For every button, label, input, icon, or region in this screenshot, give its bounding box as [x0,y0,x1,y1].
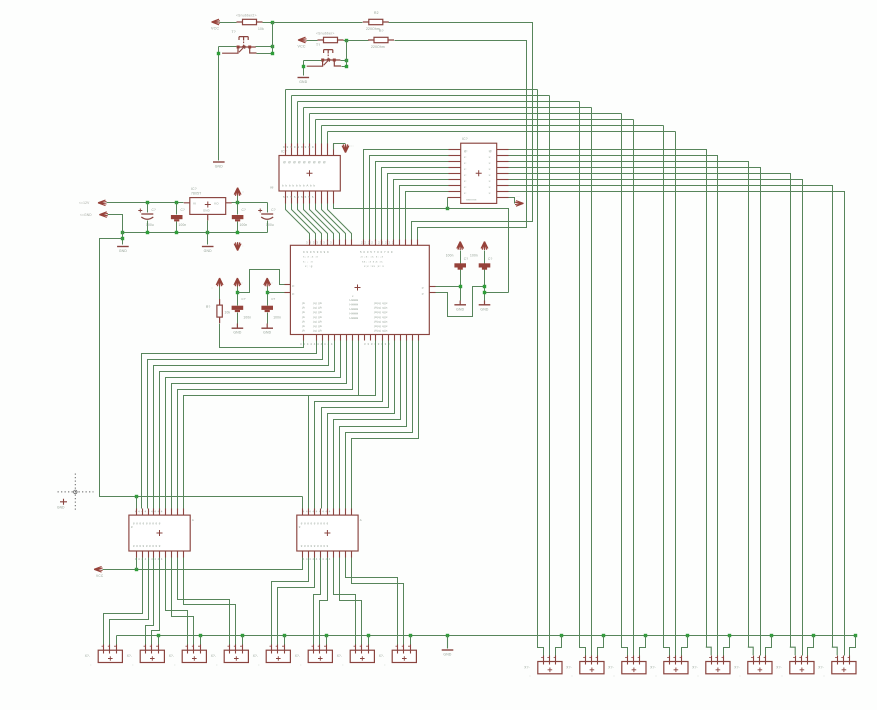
pin [309,144,311,156]
capacitor C9 [261,306,273,310]
pin [183,551,185,558]
pin [315,240,317,246]
connector X2 mark [150,656,155,661]
svg-text:GND: GND [263,331,271,335]
resistor R5 [219,299,221,323]
wire [291,96,293,144]
pin [153,551,155,558]
svg-text:x;x :xx ;x: x: x;x :xx ;x: x [364,264,384,268]
svg-text:nnnnnn: nnnnnn [466,198,477,202]
pin left1 [285,284,291,286]
svg-text:GND: GND [119,249,127,253]
junction [644,634,647,637]
svg-text:x:: x: [464,185,467,189]
svg-text:::: :: [211,286,213,290]
pin 1 [229,645,231,654]
wire [160,341,335,509]
svg-text::p: :p [421,291,424,295]
wire [394,180,449,240]
svg-text:jA: jA [301,306,305,310]
pin [497,155,509,157]
svg-text:100n: 100n [179,223,187,227]
svg-text::x: :x [488,179,491,183]
pin tick [282,645,284,647]
wire [257,53,273,55]
svg-text::::: ::: [351,144,354,148]
net arrow out [515,201,524,207]
pin [400,335,402,341]
wire [766,636,772,656]
pin 2 [549,656,551,665]
svg-text:::: :: [342,663,344,667]
wire [342,66,347,68]
svg-text:x; :g: x; :g [305,264,313,268]
wire [284,636,286,645]
pin [345,509,347,516]
IC U2 shift register [279,156,340,192]
ground [298,77,310,79]
wire [326,636,328,645]
wire [448,209,509,293]
connector X11 mark [632,668,637,673]
wire [352,558,404,645]
wire [136,497,138,509]
svg-text:X?-: X?- [211,654,217,658]
svg-text:100n: 100n [470,254,478,258]
supply VCC regulator out [234,188,241,197]
pin 8 [448,197,461,199]
junction [121,231,124,234]
svg-text:x:: x: [464,167,467,171]
svg-text:VCC: VCC [211,27,219,31]
transistor Q2 [324,50,333,54]
wire [220,22,237,24]
junction [345,39,348,42]
wire [509,162,749,648]
svg-text:::: :: [655,674,657,678]
junction [199,634,202,637]
pin [320,551,322,558]
junction [236,291,239,294]
svg-text:IC?: IC? [191,187,197,191]
pin right1 [430,286,436,288]
wire [237,203,239,215]
wire [382,168,449,240]
pin [327,144,329,156]
pin tick [234,645,236,647]
pin [303,335,305,341]
wire [327,132,329,144]
pin tick [408,645,410,647]
junction [728,634,731,637]
junction [686,634,689,637]
svg-text:::: :: [823,674,825,678]
wire [316,204,340,240]
pin [364,335,366,341]
wire [509,150,707,648]
connector X6 mark [318,656,323,661]
svg-text:::: :: [174,663,176,667]
svg-text:VCC: VCC [298,45,306,49]
capacitor C8 [232,306,244,310]
wire [322,125,664,127]
svg-text:100n: 100n [243,316,251,320]
ground pin C7 [484,301,486,305]
wire [154,341,329,509]
pin left2 [285,292,291,294]
connector X4 [224,650,248,662]
connector X3 mark [192,656,197,661]
pin 2 [717,656,719,665]
wire [724,636,730,656]
wire [344,40,347,42]
pin 9 [333,191,335,204]
pin [375,240,377,246]
svg-text:3 3 3 3 3 3 3 3: 3 3 3 3 3 3 3 3 [306,241,332,245]
svg-text:jqj jjA: jqj jjA [312,301,322,305]
net arrow supply in [98,200,107,206]
pin [333,240,335,246]
svg-text:4 4 4 4 4 4 4 4 4: 4 4 4 4 4 4 4 4 4 [303,510,331,514]
wire [158,636,160,645]
svg-text:g:: g: [292,284,295,288]
wire [850,636,856,656]
pin [285,191,287,204]
pin tick [156,645,158,647]
wire [633,120,635,656]
pin 1 [837,656,839,665]
svg-text:VI: VI [193,201,196,205]
pin 3 [242,645,244,654]
pin 2 [759,656,761,665]
pin [148,551,150,558]
pin [320,509,322,516]
IC U3 shift register [461,143,497,203]
wire [286,204,310,240]
wire [237,313,239,324]
wire [388,174,449,240]
wire [320,558,328,645]
wire [142,341,317,509]
svg-text:::: :: [739,674,741,678]
pin 2 [843,656,845,665]
svg-text:C?: C? [271,297,275,301]
svg-text:jAjqj qjjx: jAjqj qjjx [373,310,388,314]
pin 3 [555,656,557,665]
pin 1 [795,656,797,665]
wire [267,203,269,213]
pin [339,551,341,558]
wire [460,270,462,301]
regulator center mark [205,202,211,208]
pin [382,335,384,341]
wire [410,636,412,645]
svg-text:GND: GND [233,331,241,335]
pin [340,335,342,341]
junction [135,495,138,498]
wire [148,341,323,509]
connector X7 [350,650,374,662]
pin [316,335,318,341]
transistor Q1 [239,37,248,41]
wire [364,150,449,240]
svg-text:::: :: [132,663,134,667]
svg-text:A: A [360,518,362,522]
svg-text:GND: GND [456,307,464,311]
connector X14 mark [758,668,763,673]
svg-text:10k: 10k [258,27,264,31]
resistor R4 [368,39,394,41]
ground pin bus [447,635,449,648]
ground pin C8 [236,324,238,329]
svg-text:R2: R2 [374,11,379,15]
svg-text:GND: GND [480,307,488,311]
svg-text:R?: R? [379,29,384,33]
wire [748,647,753,655]
pin 16 [333,144,335,156]
svg-text:X?-: X?- [818,666,824,670]
junction [345,65,348,68]
ground [202,246,214,248]
junction [271,45,274,48]
voltage regulator IC5 7805 [190,198,226,215]
svg-text:x:: x: [464,161,467,165]
wire [485,292,509,294]
pin [369,240,371,246]
pin [142,551,144,558]
svg-text:g g g g g g g g g: g g g g g g g g g [133,521,161,525]
ground [261,327,273,329]
pin tick [114,645,116,647]
svg-text:GND: GND [204,249,212,253]
resistor R1 [237,21,263,23]
svg-text:X?-: X?- [566,666,572,670]
wire [640,636,646,656]
pin [375,335,377,341]
junction [459,285,462,288]
pin 1 [187,645,189,654]
svg-text:X?-: X?- [776,666,782,670]
junction [175,201,178,204]
wire [509,186,833,648]
pin [449,167,461,169]
svg-text:10k: 10k [225,311,231,315]
pin [381,240,383,246]
pin 2 [109,645,111,654]
wire [267,221,269,233]
svg-text:::: :: [613,674,615,678]
svg-text:g g g g g g g g g: g g g g g g g g g [133,544,161,548]
pin [351,509,353,516]
wire [278,558,315,645]
IC U3 center mark [476,170,482,176]
junction [812,634,815,637]
wire [370,156,449,240]
connector X12 mark [674,668,679,673]
connector X4 mark [234,656,239,661]
pin 1 [355,645,357,654]
connector X16 mark [842,668,847,673]
pin [171,551,173,558]
svg-text:5 0 0 5 7 0 0 7 0 9: 5 0 0 5 7 0 0 7 0 9 [360,250,393,254]
svg-text:A: A [192,518,194,522]
wire [556,636,562,656]
IC U2 center mark [307,170,313,176]
pin 1 [627,656,629,665]
pin [497,173,509,175]
connector X6 [308,650,332,662]
pin tick [360,645,362,647]
pin [418,335,420,341]
wire [509,180,803,656]
pin tick [848,657,850,659]
wire [334,341,401,509]
IC U5 shift register [297,515,358,551]
pin 2 [277,645,279,654]
svg-text:jqj jjA: jqj jjA [312,315,322,319]
wire [591,108,593,656]
pin 3 [116,645,118,654]
pin tick [186,645,188,647]
connector X12 [664,662,688,674]
svg-text:jA: jA [301,319,305,323]
pin [346,335,348,341]
svg-text:jqj jjA: jqj jjA [312,324,322,328]
svg-text:::: :: [216,663,218,667]
pin [177,551,179,558]
pin 3 [597,656,599,665]
pin tick [144,645,146,647]
connector X5 [266,650,290,662]
pin 3 [681,656,683,665]
pin [309,240,311,246]
ground [232,327,244,329]
connector X7 mark [360,656,365,661]
pin [497,161,509,163]
svg-text:100u: 100u [266,223,274,227]
wire [104,558,143,645]
wire [509,192,845,656]
pin 3 [410,645,412,654]
wire [273,22,363,24]
svg-text:::: :: [781,674,783,678]
svg-text:5 5 5 5 5 5 5 5 5: 5 5 5 5 5 5 5 5 5 [283,195,314,199]
wire [107,202,184,204]
junction [483,291,486,294]
wire [256,46,273,48]
junction [446,634,449,637]
junction [560,634,563,637]
pin [327,191,329,204]
svg-text:::: :: [258,663,260,667]
pin tick [806,657,808,659]
svg-text:;x ;x: :x; x: ;x: ;x ;x: :x; x: ;x [360,255,384,259]
pin [351,240,353,246]
pin tick [667,657,669,659]
pin 1 [753,656,755,665]
pin 2 [235,645,237,654]
svg-text:X?-: X?- [85,654,91,658]
pin tick [757,657,759,659]
svg-text:b b b b b b b A b b: b b b b b b b A b b [282,184,316,188]
connector X8 [392,650,416,662]
connector X15 mark [800,668,805,673]
wire [622,114,628,656]
pin 2 [319,645,321,654]
svg-text:VO: VO [214,201,219,205]
svg-text:gg: gg [270,185,274,189]
svg-text::x: :x [488,167,491,171]
wire [346,558,398,645]
net arrow VCC row2 [298,37,307,43]
pin tick [715,657,717,659]
svg-text:x:: x: [464,191,467,195]
pin tick [198,645,200,647]
supply VCC R5 [216,278,223,287]
svg-text::@: :@ [488,149,492,153]
wire [292,204,316,240]
wire [310,204,334,240]
pin [315,191,317,204]
supply arrow VCC IC1 [342,144,349,153]
pin 9 [497,197,509,199]
pin 3 [368,645,370,654]
svg-text:g g g g g g g g g: g g g g g g g g g [301,544,329,548]
svg-text:jqj jjA: jqj jjA [312,310,322,314]
junction [367,634,370,637]
svg-text::x: :x [488,185,491,189]
svg-text:2 2 2 2 2 2 2 2 2 2: 2 2 2 2 2 2 2 2 2 2 [361,241,394,245]
junction [121,237,124,240]
wire [304,60,322,62]
IC U4 shift register center mark [157,530,163,536]
pin [309,191,311,204]
wire [328,204,352,240]
wire [484,270,486,301]
svg-text:100n: 100n [273,316,281,320]
pin [345,240,347,246]
svg-text:7805T: 7805T [191,192,201,196]
pin [358,335,360,341]
pin 1 [543,656,545,665]
junction [602,634,605,637]
pin [449,191,461,193]
junction [157,634,160,637]
svg-text:X?-: X?- [379,654,385,658]
svg-text:x; x ;x :x: x; x ;x :x [303,255,318,259]
svg-text:X?-: X?- [169,654,175,658]
pin [333,509,335,516]
svg-text:::: :: [90,663,92,667]
svg-text:X?-: X?- [524,666,530,670]
pin 3 [723,656,725,665]
pin tick [192,645,194,647]
svg-text:C?: C? [242,208,247,212]
pin tick [835,657,837,659]
wire [436,287,485,317]
pin [136,551,138,558]
junction [302,65,305,68]
svg-text:X?-: X?- [295,654,301,658]
wire [314,558,321,645]
svg-text:g:: g: [292,291,295,295]
pin [339,240,341,246]
pin [449,155,461,157]
pin tick [793,657,795,659]
wire [347,40,369,42]
svg-text::p: :p [421,285,424,289]
junction [146,231,149,234]
